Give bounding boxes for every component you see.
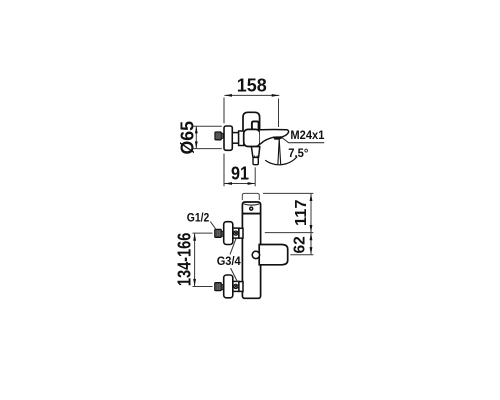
body column (front view): [242, 202, 260, 298]
svg-text:62: 62: [292, 236, 309, 253]
dimension Ø65 vertical line: [195, 126, 197, 148]
dimension 158 left arrow: [224, 94, 232, 97]
swivel wedge left line: [278, 140, 279, 165]
lever handle (side view): [243, 112, 260, 131]
top inlet nut cross circle: [234, 231, 238, 235]
outlet collar lines: [254, 156, 257, 158]
top inlet nut cross X: [234, 232, 237, 235]
wall flange escutcheon (side view): [224, 126, 232, 150]
G3/4 upper leader line: [230, 239, 236, 255]
shaft piece B: [239, 131, 244, 146]
knurled inlet fitting (side view): [215, 132, 221, 140]
cap separation thick line: [243, 213, 261, 215]
svg-text:G3/4: G3/4: [217, 254, 241, 268]
svg-text:158: 158: [237, 75, 267, 95]
mixer body (side view): [244, 129, 260, 146]
spout arm (front view): [259, 245, 288, 265]
shared extension line at inlet level: [265, 232, 314, 234]
dimension Ø65 up arrow: [195, 126, 198, 133]
bottom inlet knurl stripes: [217, 283, 219, 290]
hand shower outlet cone: [251, 147, 259, 158]
bottom inlet union nut B: [239, 282, 243, 292]
dimension 62 up arrow: [310, 233, 313, 241]
dimension 158 right arrow: [272, 94, 280, 97]
handle hub rect: [252, 121, 259, 130]
dimension 134-166 vertical line: [194, 233, 196, 286]
bottom inlet knurled fitting: [215, 283, 221, 291]
wall line upper segment: [223, 98, 225, 124]
G3/4 lower leader line: [231, 268, 238, 282]
top inlet escutcheon disc: [224, 222, 233, 245]
bottom inlet union nut A: [233, 281, 239, 291]
G1/2 leader line: [210, 222, 215, 229]
spout (side view): [260, 130, 289, 145]
dimension 134-166 top extension line: [193, 232, 213, 234]
collar between fitting and flange: [221, 133, 223, 139]
shaft piece A: [232, 133, 238, 144]
spout underside thick accent (aerator): [274, 137, 282, 138]
top inlet knurled fitting: [215, 229, 221, 237]
knurl stripes (side view fitting): [217, 133, 219, 140]
svg-text:134-166: 134-166: [175, 233, 195, 287]
dimension 117 down arrow: [310, 225, 313, 233]
dimension 158 right extension line: [278, 99, 280, 128]
swivel wedge right line: [279, 140, 281, 165]
svg-text:91: 91: [231, 164, 249, 184]
top rim ellipse arc: [244, 203, 260, 205]
dimension 134-166 down arrow: [193, 279, 196, 287]
dimension 117 top extension line: [263, 192, 313, 194]
bottom inlet escutcheon disc: [224, 275, 233, 298]
svg-text:G1/2: G1/2: [187, 210, 210, 224]
top inlet knurl stripes: [217, 230, 219, 237]
dimension 117 up arrow: [310, 193, 313, 201]
dimension 91 right extension line: [254, 167, 256, 186]
outlet tip: [253, 157, 258, 164]
svg-text:7.5°: 7.5°: [288, 146, 308, 160]
svg-text:M24x1: M24x1: [290, 128, 324, 142]
dimension 91 line: [224, 183, 255, 185]
arm junction circle: [252, 251, 259, 258]
dimension 134-166 bottom extension line: [193, 286, 213, 288]
svg-text:117: 117: [293, 199, 310, 226]
dimension 158 line: [224, 94, 279, 96]
dimension 62 bottom extension line: [290, 254, 313, 256]
M24x1 leader line: [282, 138, 324, 143]
dimension 134-166 up arrow: [193, 233, 196, 241]
swivel arc: [265, 157, 297, 165]
dimension 91 left arrow: [224, 182, 232, 185]
wall line lower segment / left extension of dim 91: [223, 154, 225, 187]
dimension 62 vertical line: [310, 233, 312, 255]
svg-text:Ø65: Ø65: [178, 121, 198, 155]
dimension 91 right arrow: [248, 182, 256, 185]
dimension 117 vertical line: [310, 193, 312, 232]
spout-tip bracket outline (thin): [242, 193, 259, 200]
dimension Ø65 top extension line: [194, 125, 222, 127]
dimension Ø65 bottom extension line: [194, 148, 222, 150]
dimension 62 down arrow: [310, 247, 313, 255]
bottom inlet nut cross circle: [234, 284, 238, 288]
top inlet union nut A: [233, 228, 239, 238]
top inlet union nut B: [239, 228, 243, 238]
bottom inlet nut cross X: [234, 285, 237, 288]
top cap screw dot: [250, 207, 253, 210]
dimension Ø65 down arrow: [195, 141, 198, 148]
